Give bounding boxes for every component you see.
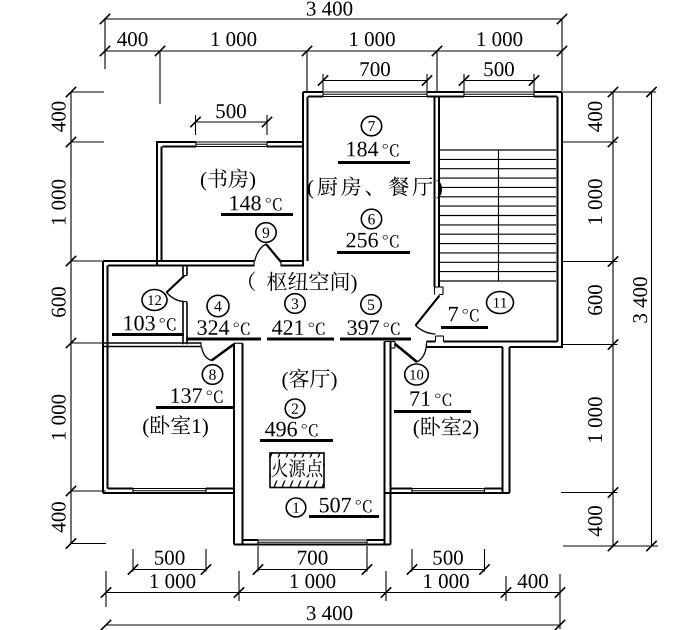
dimension line 500 bedroom2 window — [412, 569, 485, 571]
door 10 right jamb — [426, 342, 428, 348]
wall stair right / east outer — [561, 92, 563, 348]
temp label point 1 — [320, 498, 372, 513]
dim text right 3400 — [633, 277, 647, 322]
temp label point 10 — [411, 391, 452, 406]
point 2 circle — [285, 399, 305, 418]
point 3 circle — [285, 294, 305, 314]
dimension line left column — [70, 92, 72, 544]
dim text left 400 bottom — [52, 502, 66, 532]
temp label point 4 — [198, 320, 250, 335]
temp label point 8 — [172, 388, 223, 403]
dim text 1000 top-b — [350, 32, 395, 46]
dim text 500 bottom-left — [155, 551, 184, 565]
wall bedroom2 right — [502, 347, 504, 493]
wall living-bedroom2 divider — [384, 342, 386, 545]
room label bedroom2 — [414, 417, 479, 439]
dim text left 400 top — [52, 102, 66, 132]
door 8 leaf and swing arc (bedroom1) — [212, 345, 234, 361]
dimension line top row2 — [105, 50, 562, 52]
dimension line 500 bedroom1 window — [133, 569, 206, 571]
point 10 circle — [405, 364, 429, 385]
door 12 leaf and swing arc (bathroom) — [167, 276, 185, 293]
fire source hatched box — [270, 453, 324, 488]
point 7 circle — [361, 116, 381, 136]
window 500 bedroom1 bottom — [133, 488, 206, 490]
temp label point 12 — [125, 316, 176, 331]
dim text 700 — [361, 62, 390, 76]
temp label point 3 — [272, 320, 324, 335]
dimension line top overall 3400 — [105, 18, 562, 20]
dim text 400 top — [117, 32, 147, 46]
wall kitchen left / study right — [302, 92, 304, 267]
dimension line bottom row2 — [106, 592, 560, 594]
dim text 500 stair — [484, 62, 513, 76]
dim text right 400 top — [588, 102, 602, 132]
room label living room — [282, 369, 336, 391]
dim text left 1000 upper — [52, 180, 66, 225]
wall bedroom2 bottom — [385, 492, 510, 494]
underline 397 — [340, 338, 411, 341]
fire source label — [272, 459, 323, 477]
temp label point 5 — [348, 320, 400, 335]
temp label point 11 — [449, 307, 478, 322]
dim text right 1000 lower — [588, 397, 602, 442]
wall living bottom — [234, 544, 391, 546]
window 700 living bottom — [258, 539, 367, 541]
underline 148 — [221, 213, 293, 216]
door 9 leaf and swing arc (study) — [266, 244, 281, 262]
dim text 1000 top-c — [478, 32, 523, 46]
dimension line 700 kitchen window — [323, 80, 427, 82]
temp label point 2 — [265, 422, 317, 437]
wall hub top / study bottom — [103, 260, 254, 262]
point 6 circle — [361, 209, 381, 229]
door 11 leaf and swing arc (stair vestibule) — [416, 296, 440, 326]
window 700 kitchen top — [323, 91, 427, 93]
wall top kitchen-stair outer — [303, 91, 323, 93]
underline 184 — [338, 161, 410, 164]
dimension line 500 stair window — [464, 80, 534, 82]
stair center line — [498, 150, 500, 281]
temp label point 6 — [347, 233, 399, 248]
door 10 leaf and swing arc (bedroom2) — [395, 344, 418, 363]
wall hub bottom / bedroom1 top — [103, 342, 201, 344]
room label study — [201, 169, 255, 191]
dim text 1000 bottom-b — [291, 574, 336, 588]
dim text 1000 bottom-a — [151, 574, 196, 588]
dim text 1000 top-a — [212, 32, 257, 46]
wall west outer — [102, 261, 104, 493]
dimension line 500 study window — [196, 121, 268, 123]
dim text right 1000 upper — [588, 179, 602, 224]
door 9 jambs — [253, 260, 255, 267]
window 500 study top — [196, 141, 267, 143]
wall top kitchen-stair inner — [308, 96, 323, 98]
dim text 500 study — [216, 104, 245, 118]
dim text left 1000 lower — [52, 395, 66, 440]
extension lines right — [563, 91, 656, 93]
room label kitchen-dining — [308, 177, 442, 199]
dim text right 600 — [588, 285, 602, 315]
underline 324 — [186, 338, 261, 341]
temp label point 9 (study) — [231, 196, 282, 211]
underline 7 — [441, 326, 488, 329]
dimension line right overall 3400 — [651, 92, 653, 546]
underline 71 — [394, 410, 471, 413]
dim text right 400 bottom — [588, 506, 602, 536]
wall study top — [156, 141, 196, 143]
point 1 circle — [286, 498, 306, 517]
dimension line right column — [612, 92, 614, 546]
point 11 circle — [487, 292, 514, 314]
point 12 circle — [142, 290, 167, 311]
window 500 bedroom2 bottom — [412, 488, 485, 490]
door 11 top jamb — [435, 286, 444, 288]
door 10 left jamb — [385, 341, 396, 343]
dim text bottom 3400 — [307, 606, 352, 620]
underline 507 — [309, 515, 379, 518]
dim text 700 bottom — [298, 551, 327, 565]
stair treads — [440, 150, 556, 281]
wall study left — [156, 142, 158, 267]
dim text left 600 — [52, 287, 66, 317]
point 8 circle — [202, 365, 222, 385]
underline 421 — [267, 338, 334, 341]
dim text top 3400 — [307, 2, 352, 16]
dim text 1000 bottom-c — [424, 574, 469, 588]
window 500 stair top — [464, 91, 534, 93]
dimension line bottom overall 3400 — [106, 624, 560, 626]
dimension line 700 living window — [258, 569, 367, 571]
wall bedroom2 top / vestibule bottom — [427, 341, 436, 343]
point 9 circle — [256, 223, 276, 243]
temp label point 7 — [348, 142, 399, 157]
door 11 bottom jamb — [435, 336, 437, 342]
wall stair-kitchen divider — [434, 97, 436, 288]
dim text 400 bottom — [518, 574, 548, 588]
wall bathroom right — [182, 267, 184, 276]
point 4 circle — [207, 295, 229, 316]
dim text 500 bottom-right — [433, 551, 462, 565]
wall bedroom1 bottom — [103, 492, 234, 494]
room label hub space — [249, 271, 356, 293]
wall living-bedroom1 divider — [233, 343, 235, 544]
underline 256 — [337, 251, 410, 254]
room label bedroom1 — [143, 415, 208, 437]
point 5 circle — [361, 295, 381, 315]
underline 137 — [156, 406, 233, 409]
underline 103 — [112, 333, 184, 336]
underline 496 — [260, 439, 333, 442]
